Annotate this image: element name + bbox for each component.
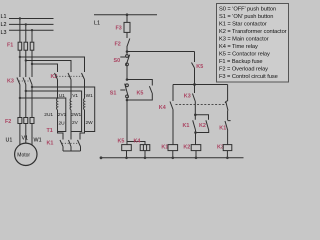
svg-text:K5: K5 xyxy=(137,91,144,97)
svg-text:2V1: 2V1 xyxy=(58,112,67,118)
svg-text:V1: V1 xyxy=(22,136,29,142)
svg-text:F1 = Backup fuse: F1 = Backup fuse xyxy=(219,59,262,65)
svg-text:V1: V1 xyxy=(72,93,78,99)
svg-text:K2: K2 xyxy=(183,144,190,150)
svg-text:K4 = Time relay: K4 = Time relay xyxy=(219,44,258,50)
svg-text:K3: K3 xyxy=(7,79,14,85)
svg-text:L2: L2 xyxy=(1,22,7,28)
svg-text:K5: K5 xyxy=(196,64,203,70)
svg-text:K1: K1 xyxy=(183,123,190,129)
svg-text:Motor: Motor xyxy=(17,152,30,158)
svg-text:2U1: 2U1 xyxy=(44,112,53,118)
svg-text:2U: 2U xyxy=(59,120,66,126)
svg-text:S1 = ‘ON’ push button: S1 = ‘ON’ push button xyxy=(219,14,273,20)
svg-text:F2 = Overload relay: F2 = Overload relay xyxy=(219,67,268,73)
svg-text:S0 = ‘OFF’ push button: S0 = ‘OFF’ push button xyxy=(219,7,276,13)
svg-text:W1: W1 xyxy=(34,138,42,144)
svg-text:K1: K1 xyxy=(161,144,168,150)
svg-text:K5: K5 xyxy=(118,139,125,145)
svg-text:F3 = Control circuit fuse: F3 = Control circuit fuse xyxy=(219,74,278,80)
svg-text:L1: L1 xyxy=(94,20,100,26)
svg-text:L3: L3 xyxy=(1,30,7,36)
svg-text:S0: S0 xyxy=(114,58,121,64)
svg-text:U1: U1 xyxy=(59,93,65,99)
svg-text:K2 = Transformer contactor: K2 = Transformer contactor xyxy=(219,29,287,35)
svg-text:K1 = Star contactor: K1 = Star contactor xyxy=(219,22,267,28)
svg-text:K4: K4 xyxy=(159,105,166,111)
svg-text:K3: K3 xyxy=(184,93,191,99)
svg-text:F1: F1 xyxy=(7,43,13,49)
svg-text:K5 = Contactor relay: K5 = Contactor relay xyxy=(219,52,270,58)
svg-text:F2: F2 xyxy=(115,41,121,47)
svg-text:K1: K1 xyxy=(47,140,54,146)
svg-text:T1: T1 xyxy=(47,128,53,134)
svg-text:F2: F2 xyxy=(5,119,11,125)
svg-text:K1: K1 xyxy=(219,125,226,131)
svg-text:2W1: 2W1 xyxy=(71,112,81,118)
svg-text:F3: F3 xyxy=(116,26,122,32)
svg-text:K2: K2 xyxy=(199,123,206,129)
svg-text:K4: K4 xyxy=(134,139,141,145)
svg-text:K3 = Main contactor: K3 = Main contactor xyxy=(219,37,269,43)
svg-text:L1: L1 xyxy=(1,14,7,20)
svg-text:W1: W1 xyxy=(86,93,94,99)
svg-text:2W: 2W xyxy=(86,120,94,126)
svg-text:U1: U1 xyxy=(6,138,13,144)
svg-text:S1: S1 xyxy=(110,91,117,97)
svg-text:2V: 2V xyxy=(72,120,79,126)
